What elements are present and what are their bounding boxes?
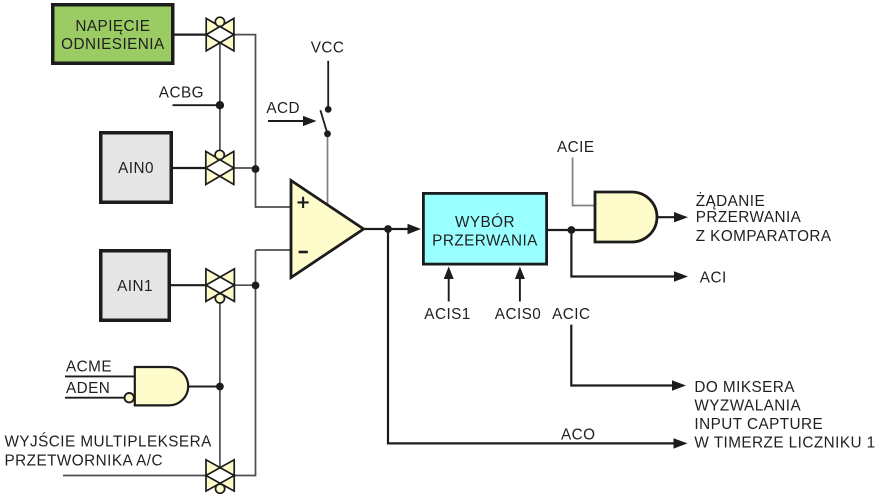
svg-text:W TIMERZE LICZNIKU 1: W TIMERZE LICZNIKU 1 <box>694 435 875 452</box>
svg-text:ACO: ACO <box>561 426 596 443</box>
svg-text:NAPIĘCIE: NAPIĘCIE <box>75 18 150 35</box>
svg-text:ODNIESIENIA: ODNIESIENIA <box>61 36 165 53</box>
svg-text:ACI: ACI <box>700 270 727 287</box>
svg-text:ACIE: ACIE <box>557 139 595 156</box>
svg-text:ACD: ACD <box>266 100 300 117</box>
svg-text:AIN0: AIN0 <box>118 160 154 177</box>
svg-text:ACBG: ACBG <box>159 85 204 102</box>
svg-text:INPUT CAPTURE: INPUT CAPTURE <box>694 416 823 433</box>
svg-text:PRZERWANIA: PRZERWANIA <box>696 209 802 226</box>
svg-text:ACIS1: ACIS1 <box>424 306 470 323</box>
svg-text:PRZERWANIA: PRZERWANIA <box>432 232 538 249</box>
svg-text:ACIS0: ACIS0 <box>495 306 541 323</box>
svg-text:ŻĄDANIE: ŻĄDANIE <box>696 192 765 210</box>
svg-text:VCC: VCC <box>311 40 345 57</box>
svg-text:ADEN: ADEN <box>66 380 110 397</box>
svg-text:WYJŚCIE MULTIPLEKSERA: WYJŚCIE MULTIPLEKSERA <box>5 433 213 451</box>
svg-text:Z KOMPARATORA: Z KOMPARATORA <box>696 228 832 245</box>
svg-text:DO MIKSERA: DO MIKSERA <box>694 379 795 396</box>
svg-text:WYBÓR: WYBÓR <box>455 214 515 231</box>
svg-text:ACME: ACME <box>66 358 112 375</box>
svg-text:AIN1: AIN1 <box>117 278 153 295</box>
svg-text:ACIC: ACIC <box>552 306 590 323</box>
svg-text:PRZETWORNIKA A/C: PRZETWORNIKA A/C <box>5 452 164 469</box>
svg-text:WYZWALANIA: WYZWALANIA <box>694 397 801 414</box>
